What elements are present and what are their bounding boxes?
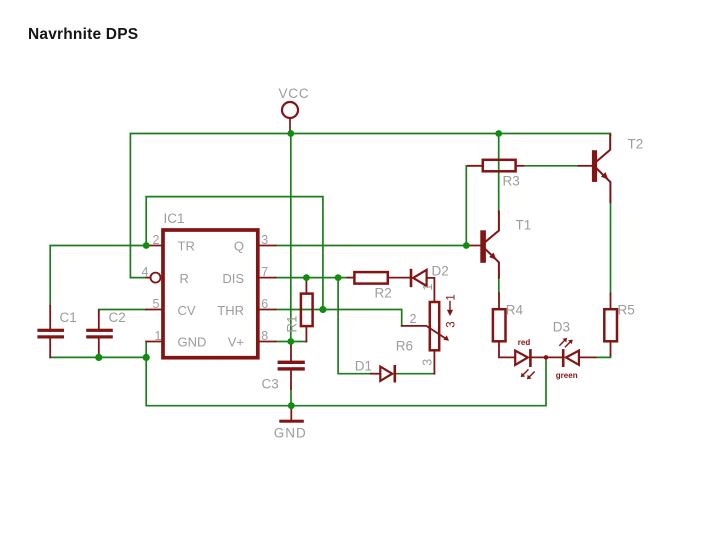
- svg-text:4: 4: [142, 265, 149, 279]
- svg-text:1: 1: [421, 284, 435, 291]
- svg-text:GND: GND: [274, 425, 307, 440]
- svg-text:D1: D1: [355, 358, 372, 373]
- svg-text:D2: D2: [432, 264, 449, 279]
- svg-text:3: 3: [446, 321, 458, 327]
- svg-text:8: 8: [261, 329, 268, 343]
- svg-text:Q: Q: [234, 239, 244, 254]
- svg-text:R1: R1: [285, 315, 300, 332]
- svg-text:red: red: [518, 338, 531, 347]
- svg-text:R: R: [180, 271, 189, 286]
- svg-text:R5: R5: [618, 303, 635, 318]
- svg-text:1: 1: [446, 294, 458, 300]
- svg-text:6: 6: [261, 297, 268, 311]
- svg-text:2: 2: [153, 233, 160, 247]
- svg-text:TR: TR: [178, 239, 195, 254]
- svg-text:T2: T2: [628, 137, 644, 152]
- svg-text:R3: R3: [503, 174, 520, 189]
- svg-text:D3: D3: [553, 319, 570, 334]
- svg-text:R6: R6: [396, 339, 413, 354]
- svg-text:1: 1: [155, 329, 162, 343]
- svg-text:C2: C2: [109, 310, 126, 325]
- svg-text:green: green: [556, 371, 578, 380]
- svg-text:R4: R4: [506, 303, 524, 318]
- svg-text:C1: C1: [60, 310, 77, 325]
- svg-text:V+: V+: [228, 335, 244, 350]
- svg-text:CV: CV: [178, 303, 196, 318]
- svg-text:GND: GND: [178, 335, 207, 350]
- svg-text:C3: C3: [262, 377, 279, 392]
- svg-text:VCC: VCC: [279, 86, 310, 101]
- svg-text:R2: R2: [375, 285, 392, 300]
- svg-text:2: 2: [410, 312, 417, 326]
- svg-text:DIS: DIS: [222, 271, 244, 286]
- svg-text:IC1: IC1: [164, 211, 185, 226]
- svg-text:T1: T1: [516, 217, 532, 232]
- svg-text:3: 3: [420, 359, 434, 366]
- svg-text:THR: THR: [217, 303, 244, 318]
- svg-text:5: 5: [153, 297, 160, 311]
- svg-text:7: 7: [261, 265, 268, 279]
- svg-text:3: 3: [261, 233, 268, 247]
